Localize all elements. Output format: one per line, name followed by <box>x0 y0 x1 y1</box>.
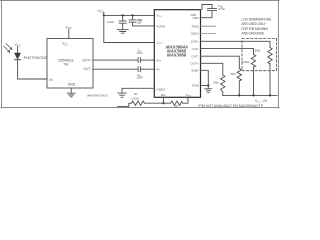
svg-text:OUT-: OUT- <box>191 55 198 59</box>
svg-text:RSSI: RSSI <box>192 25 199 29</box>
svg-text:CZP: CZP <box>190 13 196 17</box>
svg-text:OUT+: OUT+ <box>190 62 199 66</box>
svg-text:TIA: TIA <box>63 63 69 67</box>
svg-text:50Ω: 50Ω <box>255 49 261 53</box>
resistor R5 50ohm <box>237 69 241 82</box>
node VCC (photodiode supply) <box>14 43 20 48</box>
svg-text:LOS-: LOS- <box>192 47 199 51</box>
svg-text:50Ω: 50Ω <box>213 81 219 85</box>
ground (U1) <box>67 88 75 97</box>
svg-text:R1: R1 <box>134 92 138 96</box>
wire VCC rail <box>104 12 155 15</box>
resistor R3 50ohm <box>268 48 272 64</box>
wire LOS- to R4 <box>201 49 254 55</box>
wire R1 left lead <box>118 103 132 106</box>
wire VCC-2V rail <box>223 94 277 96</box>
U1 pin labels <box>49 42 91 87</box>
wire photodiode to U1 IN <box>18 60 47 79</box>
capacitor C2 (filter) <box>129 15 136 26</box>
svg-text:GND: GND <box>192 84 200 88</box>
svg-text:MAX3966: MAX3966 <box>167 53 187 58</box>
svg-text:LOS TERMINATIONS: LOS TERMINATIONS <box>241 17 272 21</box>
capacitor C3 (coupling, 10nF) <box>138 58 140 63</box>
wire U1 OUT- to C4 <box>93 68 138 70</box>
svg-text:IN-: IN- <box>156 68 160 72</box>
photodiode D1 <box>15 53 21 59</box>
junction <box>207 84 209 86</box>
wire <box>17 47 19 53</box>
junction <box>132 14 134 16</box>
wire U1 OUT+ to C3 <box>93 59 138 61</box>
svg-text:27nF: 27nF <box>218 7 225 11</box>
svg-text:10nF: 10nF <box>137 76 143 80</box>
wire <box>68 29 70 38</box>
label PHOTODIODE <box>24 56 48 60</box>
svg-text:SQUELCH: SQUELCH <box>191 32 199 36</box>
wire SUB to ground <box>201 70 209 88</box>
border frame <box>0 0 279 108</box>
U2 pin labels bottom <box>161 93 191 98</box>
wire EN riser <box>162 97 164 103</box>
wire SQUELCH stub <box>201 32 216 34</box>
svg-text:≥100k: ≥100k <box>132 97 140 101</box>
U2 pin labels right <box>190 16 199 88</box>
svg-text:GND3: GND3 <box>156 88 165 92</box>
wire U2 GND to ground <box>122 88 154 93</box>
capacitor CAZ 27nF loop <box>201 5 217 18</box>
resistor R6 50ohm <box>221 75 225 92</box>
svg-text:FOR THE MAX3964: FOR THE MAX3964 <box>241 27 268 31</box>
junction <box>238 94 240 96</box>
wire OUT- to R5 <box>201 56 240 68</box>
node VCC (U2 supply) <box>97 9 103 14</box>
svg-text:GND: GND <box>68 83 76 87</box>
wire RSSI stub <box>201 25 216 27</box>
svg-text:OUT-: OUT- <box>83 67 91 71</box>
wire C2 to U2 FILTER pin <box>133 25 155 27</box>
wire OUT+ to R6 <box>201 63 223 75</box>
light arrows into photodiode <box>6 44 12 50</box>
resistor R2 <box>163 97 188 105</box>
ground (U2 GND) <box>118 93 126 97</box>
svg-text:LOS+: LOS+ <box>191 40 199 44</box>
junction <box>269 94 271 96</box>
label CZP (top pin) <box>190 13 196 17</box>
resistor R4 100ohm <box>251 55 255 68</box>
svg-text:10nF: 10nF <box>107 20 114 24</box>
wire R6 to rail <box>222 92 224 95</box>
svg-text:IN+: IN+ <box>156 58 161 62</box>
svg-text:OUT+: OUT+ <box>82 59 91 63</box>
op-amp U1 MAX3665 TIA block <box>47 39 93 89</box>
label (MAX3965 ONLY) <box>87 93 108 97</box>
svg-text:*PIN NOT AVAILABLE ON MAX3964A: *PIN NOT AVAILABLE ON MAX3964ACTP <box>198 104 263 108</box>
junction <box>103 14 105 16</box>
wire C3 to U2 IN+ <box>141 59 155 61</box>
ground (C1) <box>117 30 128 34</box>
ground (SUB/GND) <box>205 89 212 93</box>
resistor R1 <box>132 101 164 105</box>
svg-text:ARE USED ONLY: ARE USED ONLY <box>241 22 266 26</box>
wire LOS+ to R3 <box>201 41 271 47</box>
junction <box>162 102 164 104</box>
svg-text:EN: EN <box>161 93 165 97</box>
op-amp U2 MAX3964/65/66 block <box>154 10 200 98</box>
LOS termination note text <box>241 17 272 35</box>
svg-text:R2: R2 <box>175 104 179 108</box>
svg-text:10nF: 10nF <box>137 21 142 25</box>
wire GND pin to SUB riser <box>201 85 209 87</box>
U2 part numbers <box>166 44 188 57</box>
junction <box>252 94 254 96</box>
capacitor C1 (bypass 10nF) <box>119 15 126 29</box>
svg-text:50Ω: 50Ω <box>230 72 236 76</box>
node VCC - 2V <box>255 99 268 104</box>
svg-text:SUB*: SUB* <box>191 69 199 73</box>
svg-text:AND MAX3966: AND MAX3966 <box>241 32 264 36</box>
node VCC (U1 supply) <box>65 26 71 31</box>
svg-text:10nF: 10nF <box>137 51 143 55</box>
footnote <box>198 104 263 108</box>
svg-text:100Ω: 100Ω <box>242 60 250 64</box>
svg-text:(MAX3965 ONLY): (MAX3965 ONLY) <box>87 93 108 97</box>
wire R3 to rail <box>269 64 271 96</box>
wire R5 to rail <box>238 81 240 95</box>
svg-text:FILTER: FILTER <box>157 25 166 29</box>
wire VCC to U2 VCCI pin <box>104 15 155 42</box>
svg-text:VCC: VCC <box>97 9 103 14</box>
junction <box>122 14 124 16</box>
svg-text:PHOTODIODE: PHOTODIODE <box>24 56 48 60</box>
dashed box (LOS terminations) <box>242 38 277 70</box>
U2 pin labels left <box>156 14 165 92</box>
wire C4 to U2 IN- <box>141 68 155 70</box>
wire R4 to rail <box>253 67 255 95</box>
capacitor C4 (coupling, 10nF) <box>138 67 140 72</box>
